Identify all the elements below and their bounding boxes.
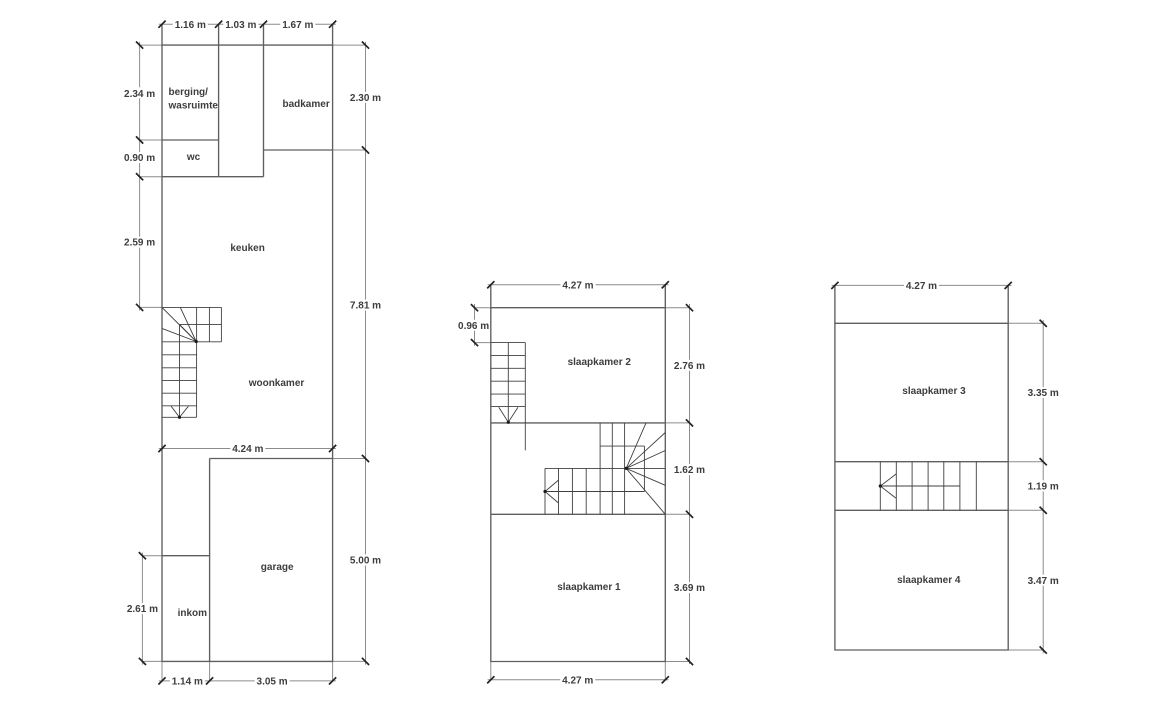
svg-text:0.96 m: 0.96 m — [458, 321, 489, 332]
room labels ground floor — [168, 87, 330, 619]
wall extensions to top dimension line first floor — [491, 285, 666, 308]
dim lines second floor — [832, 285, 1043, 653]
svg-text:3.69 m: 3.69 m — [674, 583, 705, 594]
dim labels first floor — [457, 279, 707, 686]
svg-text:slaapkamer 2: slaapkamer 2 — [568, 357, 632, 368]
outer wall first floor — [491, 308, 666, 662]
wall berging/wc divider — [162, 139, 219, 141]
svg-text:2.59 m: 2.59 m — [124, 238, 155, 249]
stair first floor upper flight — [491, 343, 526, 451]
stair second floor — [880, 462, 976, 511]
svg-text:2.30 m: 2.30 m — [350, 93, 381, 104]
dim lines ground floor — [140, 24, 366, 681]
wall inkom top — [162, 555, 210, 557]
wall extensions to top dimension line second floor — [835, 285, 1008, 323]
outer wall ground floor — [162, 45, 333, 661]
stair dots ground floor — [178, 340, 198, 419]
wall wc bottom — [162, 176, 264, 178]
stair ground floor — [162, 307, 221, 417]
svg-text:1.67 m: 1.67 m — [282, 20, 313, 31]
svg-text:1.03 m: 1.03 m — [225, 20, 256, 31]
dim labels second floor — [904, 280, 1061, 587]
outer wall second floor — [835, 323, 1008, 650]
svg-text:0.90 m: 0.90 m — [124, 153, 155, 164]
ticks first floor — [471, 281, 693, 683]
svg-text:4.24 m: 4.24 m — [232, 444, 263, 455]
room labels first floor — [557, 357, 631, 593]
stair ground floor arrow head — [171, 406, 188, 417]
svg-text:slaapkamer 3: slaapkamer 3 — [902, 386, 966, 397]
wall berging right — [218, 45, 220, 177]
svg-text:2.76 m: 2.76 m — [674, 361, 705, 372]
wall extensions to top dimension line — [162, 24, 333, 45]
wall garage/inkom divider — [209, 459, 211, 662]
svg-text:inkom: inkom — [178, 608, 208, 619]
svg-text:2.61 m: 2.61 m — [127, 604, 158, 615]
svg-text:1.14 m: 1.14 m — [172, 677, 203, 688]
svg-text:3.35 m: 3.35 m — [1028, 388, 1059, 399]
ticks second floor — [831, 282, 1047, 654]
svg-text:wc: wc — [186, 152, 201, 163]
walls second floor — [835, 285, 1008, 650]
room labels second floor — [897, 386, 966, 586]
svg-text:3.47 m: 3.47 m — [1028, 576, 1059, 587]
svg-text:5.00 m: 5.00 m — [350, 556, 381, 567]
svg-text:badkamer: badkamer — [282, 99, 329, 110]
svg-text:4.27 m: 4.27 m — [562, 280, 593, 291]
wall slaapkamer 1 top — [491, 513, 666, 515]
svg-text:2.34 m: 2.34 m — [124, 89, 155, 100]
svg-text:keuken: keuken — [230, 243, 264, 254]
wall badkamer left — [263, 45, 265, 177]
stair ground floor winder fan — [162, 307, 196, 341]
dim labels ground floor — [122, 19, 383, 688]
wall slaapkamer 3 bottom — [835, 461, 1008, 463]
svg-text:slaapkamer 4: slaapkamer 4 — [897, 575, 961, 586]
svg-text:4.27 m: 4.27 m — [906, 281, 937, 292]
svg-text:garage: garage — [261, 562, 294, 573]
svg-text:slaapkamer 1: slaapkamer 1 — [557, 582, 621, 593]
stair ground floor winder grid — [208, 307, 210, 341]
svg-text:3.05 m: 3.05 m — [257, 677, 288, 688]
stair ground floor treads — [162, 355, 197, 406]
walls ground floor — [162, 24, 333, 661]
svg-text:woonkamer: woonkamer — [248, 378, 305, 389]
svg-text:1.19 m: 1.19 m — [1028, 482, 1059, 493]
svg-text:wasruimte: wasruimte — [168, 101, 219, 112]
svg-text:7.81 m: 7.81 m — [350, 301, 381, 312]
stair dot second floor — [879, 484, 882, 487]
stair dots first floor — [507, 421, 628, 494]
wall slaapkamer 2 bottom — [491, 422, 666, 424]
wall garage top — [210, 458, 333, 460]
svg-text:4.27 m: 4.27 m — [562, 675, 593, 686]
wall slaapkamer 4 top — [835, 509, 1008, 511]
walls first floor — [491, 285, 666, 662]
svg-text:1.16 m: 1.16 m — [175, 20, 206, 31]
svg-text:berging/: berging/ — [169, 87, 209, 98]
stair ground floor outline — [162, 306, 221, 308]
wall badkamer bottom — [264, 149, 333, 151]
svg-text:1.62 m: 1.62 m — [674, 465, 705, 476]
dim lines first floor — [475, 285, 690, 680]
stair first floor winder — [545, 423, 665, 514]
ticks ground floor — [136, 21, 369, 685]
